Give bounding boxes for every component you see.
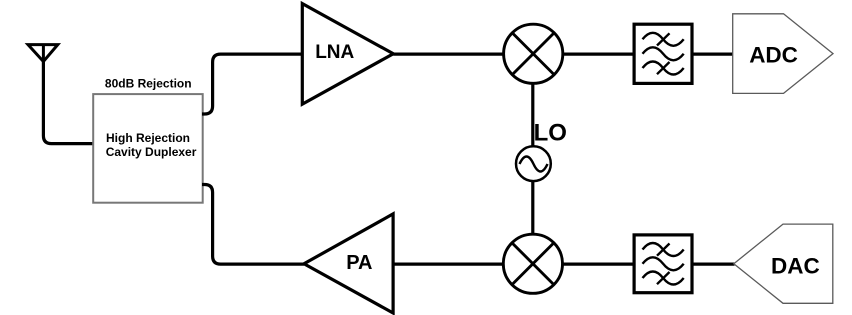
amplifier LNA — [302, 4, 393, 105]
filter FL2 wave top — [643, 243, 684, 256]
mixer M2 — [503, 234, 562, 293]
duplexer U1 box — [93, 94, 203, 203]
wire duplexer to LNA — [202, 54, 302, 114]
antenna ANT — [28, 45, 58, 62]
label High Rejection Cavity Duplexer — [106, 131, 197, 159]
filter FL2 box — [634, 235, 692, 293]
svg-text:Cavity Duplexer: Cavity Duplexer — [106, 145, 197, 159]
wire mixer2 to filter2 — [562, 263, 635, 266]
wire duplexer to PA — [202, 185, 304, 265]
oscillator LO — [516, 146, 551, 181]
filter FL1 box — [634, 24, 692, 83]
svg-text:DAC: DAC — [771, 253, 820, 278]
svg-text:LNA: LNA — [315, 42, 354, 63]
svg-text:LO: LO — [534, 119, 567, 146]
wire PA to mixer2 — [393, 263, 504, 266]
filter FL1 wave middle — [643, 47, 684, 60]
mixer M1 — [504, 24, 563, 83]
wire mixer1 to filter1 — [563, 52, 634, 55]
svg-text:ADC: ADC — [749, 42, 798, 67]
wire antenna to duplexer — [43, 60, 93, 144]
filter FL2 wave middle — [643, 257, 684, 270]
wire mixer1 to LO — [531, 83, 534, 146]
svg-text:80dB Rejection: 80dB Rejection — [105, 76, 192, 90]
wire LO to mixer2 — [531, 181, 534, 235]
wire filter2 to DAC — [692, 263, 735, 266]
filter FL1 wave bottom — [643, 62, 684, 75]
svg-text:High Rejection: High Rejection — [106, 131, 190, 145]
converter DAC — [734, 224, 833, 303]
filter FL1 wave top — [643, 33, 684, 46]
amplifier PA — [304, 214, 393, 313]
filter FL2 wave bottom — [643, 272, 684, 285]
wire LNA to mixer1 — [393, 52, 503, 55]
wire filter1 to ADC — [692, 52, 733, 55]
converter ADC — [733, 14, 833, 94]
svg-text:PA: PA — [346, 252, 372, 274]
